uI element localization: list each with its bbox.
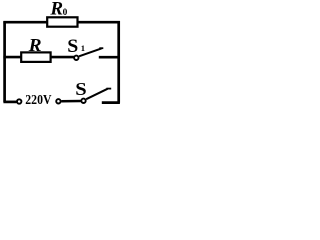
wire left vertical — [3, 21, 6, 102]
svg-text:S: S — [67, 37, 78, 57]
wire bottom right — [102, 101, 120, 104]
wire top horizontal — [3, 21, 120, 24]
switch S pivot circle — [81, 99, 85, 103]
svg-text:R: R — [49, 0, 63, 20]
source terminal circle left — [17, 99, 21, 103]
svg-text:220V: 220V — [25, 92, 52, 107]
switch S1 blade — [79, 48, 102, 56]
wire middle horizontal (left of S1) — [3, 56, 74, 59]
wire bottom left — [3, 101, 16, 104]
resistor R0 — [47, 17, 77, 26]
wire right vertical — [117, 21, 120, 103]
resistor R — [21, 52, 50, 62]
svg-text:0: 0 — [63, 8, 68, 18]
switch S blade — [86, 89, 107, 99]
svg-text:R: R — [28, 36, 42, 55]
switch S1 contact tick — [99, 47, 103, 49]
wire middle right stub — [99, 56, 120, 59]
switch S1 pivot circle — [74, 56, 78, 60]
svg-text:1: 1 — [81, 43, 85, 53]
source terminal circle right — [56, 99, 60, 103]
svg-text:S: S — [75, 80, 86, 100]
switch S contact tick — [106, 88, 111, 90]
wire between terminal and switch S — [61, 100, 80, 103]
